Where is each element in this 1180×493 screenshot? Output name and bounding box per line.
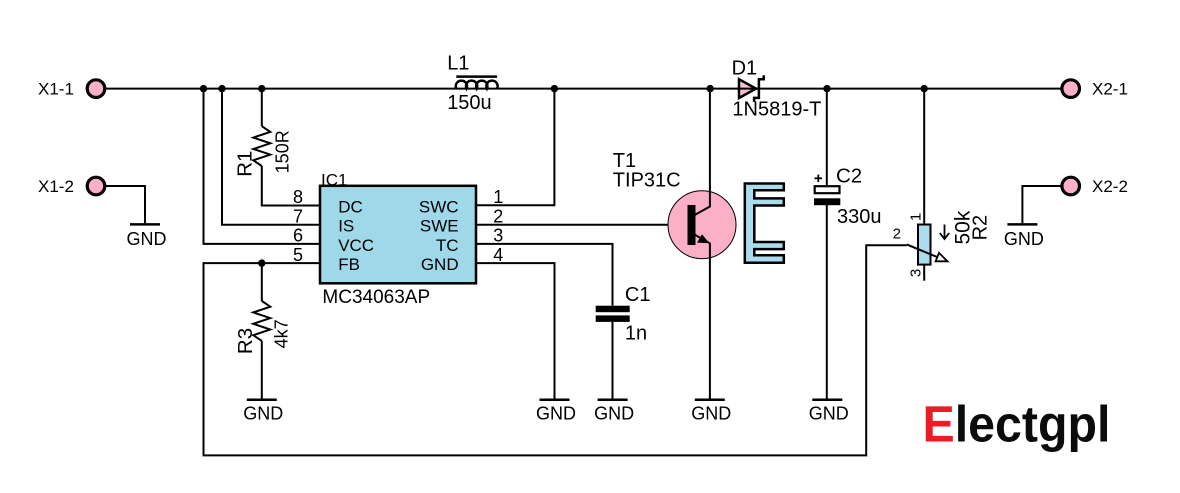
svg-text:GND: GND bbox=[421, 255, 459, 274]
svg-text:150R: 150R bbox=[272, 130, 292, 173]
svg-text:SWE: SWE bbox=[420, 217, 459, 236]
svg-text:GND: GND bbox=[691, 403, 731, 423]
svg-text:MC34063AP: MC34063AP bbox=[322, 287, 430, 308]
svg-text:7: 7 bbox=[293, 206, 303, 226]
svg-text:X2-1: X2-1 bbox=[1092, 80, 1128, 99]
svg-text:FB: FB bbox=[338, 255, 360, 274]
svg-text:L1: L1 bbox=[447, 53, 469, 75]
svg-text:TIP31C: TIP31C bbox=[613, 169, 681, 191]
svg-text:150u: 150u bbox=[447, 92, 492, 114]
svg-text:2: 2 bbox=[893, 226, 901, 243]
svg-text:X1-1: X1-1 bbox=[38, 80, 74, 99]
svg-text:6: 6 bbox=[293, 226, 303, 246]
svg-text:GND: GND bbox=[1004, 229, 1044, 249]
svg-text:D1: D1 bbox=[732, 57, 758, 79]
svg-text:1: 1 bbox=[493, 187, 503, 207]
svg-text:X1-2: X1-2 bbox=[38, 177, 74, 196]
svg-text:GND: GND bbox=[809, 403, 849, 423]
svg-text:R2: R2 bbox=[970, 215, 992, 241]
svg-text:3: 3 bbox=[493, 226, 503, 246]
svg-text:C2: C2 bbox=[836, 165, 862, 188]
svg-text:C1: C1 bbox=[625, 284, 651, 306]
svg-text:GND: GND bbox=[127, 229, 167, 249]
svg-text:Electgpl: Electgpl bbox=[923, 396, 1111, 453]
svg-text:3: 3 bbox=[908, 269, 925, 277]
svg-text:GND: GND bbox=[594, 403, 634, 423]
svg-text:1N5819-T: 1N5819-T bbox=[732, 99, 821, 121]
svg-text:R1: R1 bbox=[234, 151, 257, 177]
svg-text:SWC: SWC bbox=[419, 198, 459, 217]
svg-text:X2-2: X2-2 bbox=[1092, 177, 1128, 196]
svg-text:4k7: 4k7 bbox=[272, 319, 292, 348]
svg-text:330u: 330u bbox=[837, 206, 882, 228]
svg-text:DC: DC bbox=[338, 198, 363, 217]
svg-text:2: 2 bbox=[493, 206, 503, 226]
svg-text:R3: R3 bbox=[234, 328, 257, 354]
svg-text:IS: IS bbox=[338, 217, 354, 236]
svg-text:5: 5 bbox=[293, 245, 303, 265]
svg-text:1n: 1n bbox=[625, 323, 647, 345]
svg-text:GND: GND bbox=[243, 403, 283, 423]
svg-text:GND: GND bbox=[536, 403, 576, 423]
svg-text:4: 4 bbox=[493, 245, 503, 265]
svg-text:VCC: VCC bbox=[338, 236, 374, 255]
svg-text:1: 1 bbox=[908, 213, 925, 221]
svg-text:8: 8 bbox=[293, 187, 303, 207]
svg-text:IC1: IC1 bbox=[321, 170, 347, 189]
svg-text:TC: TC bbox=[436, 236, 459, 255]
